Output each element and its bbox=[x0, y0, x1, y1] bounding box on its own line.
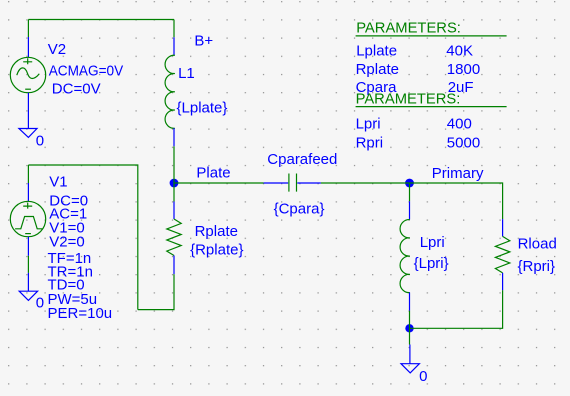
ground pin (V1) bbox=[27, 273, 29, 291]
wire Primary to Rload bbox=[410, 183, 503, 219]
svg-text:V1: V1 bbox=[49, 174, 67, 191]
svg-text:V2=0: V2=0 bbox=[49, 233, 84, 250]
svg-text:{Rplate}: {Rplate} bbox=[190, 241, 243, 258]
svg-text:Rpri: Rpri bbox=[356, 135, 384, 152]
wire V2 top vertical bbox=[27, 20, 29, 38]
inductor Lpri pin bottom bbox=[409, 293, 411, 311]
svg-text:Rplate: Rplate bbox=[356, 61, 399, 78]
inductor Lpri body bbox=[400, 220, 410, 293]
ground symbol (bottom right) bbox=[401, 364, 419, 373]
junction dot bottom bbox=[405, 324, 413, 332]
svg-text:0: 0 bbox=[36, 132, 44, 149]
parameters block 2 underline bbox=[356, 106, 507, 108]
ground symbol (V1) bbox=[19, 291, 37, 300]
junction dot Plate bbox=[170, 179, 179, 188]
capacitor Cparafeed body bbox=[289, 174, 297, 192]
wire top B+ horizontal bbox=[28, 19, 174, 21]
wire V1 loop bbox=[28, 165, 137, 310]
inductor L1 pin top bbox=[173, 37, 175, 55]
voltage source V2 pin bottom bbox=[27, 93, 29, 129]
voltage source V1 pin top bbox=[27, 183, 29, 201]
svg-text:0: 0 bbox=[36, 295, 44, 312]
capacitor Cparafeed pin right bbox=[297, 182, 321, 184]
wire L1 to Plate node bbox=[173, 146, 175, 183]
wire Rload bottom bbox=[410, 290, 503, 328]
voltage source V2 pin top bbox=[27, 37, 29, 57]
wire bottom junction down bbox=[409, 328, 411, 344]
parameters block 1 underline bbox=[356, 35, 507, 37]
svg-text:Plate: Plate bbox=[196, 165, 230, 182]
capacitor Cparafeed pin left bbox=[264, 182, 289, 184]
inductor L1 body bbox=[165, 55, 175, 128]
svg-text:1800: 1800 bbox=[447, 61, 480, 78]
svg-text:ACMAG=0V: ACMAG=0V bbox=[49, 63, 124, 80]
svg-text:B+: B+ bbox=[194, 32, 213, 49]
svg-text:Primary: Primary bbox=[432, 165, 484, 182]
voltage source V1 pin bottom bbox=[27, 237, 29, 256]
svg-text:Cparafeed: Cparafeed bbox=[267, 151, 337, 168]
svg-text:Lpri: Lpri bbox=[420, 234, 445, 251]
svg-text:PARAMETERS:: PARAMETERS: bbox=[356, 20, 461, 37]
ground pin (bottom right) bbox=[409, 345, 411, 364]
wire V1 top vertical bbox=[27, 165, 29, 183]
svg-text:DC=0V: DC=0V bbox=[52, 81, 101, 98]
wire Plate junction vertical bbox=[173, 183, 175, 202]
wire Rplate bottom bbox=[138, 274, 174, 309]
voltage source V1 body bbox=[10, 201, 45, 236]
svg-text:40K: 40K bbox=[446, 42, 473, 59]
svg-text:{Rpri}: {Rpri} bbox=[518, 258, 556, 275]
svg-text:L1: L1 bbox=[178, 65, 195, 82]
wire Lpri to bottom junction bbox=[409, 311, 411, 329]
svg-text:0: 0 bbox=[419, 368, 427, 385]
voltage source V2 body bbox=[10, 57, 45, 92]
resistor Rload pin top bbox=[502, 219, 504, 236]
inductor Lpri pin top bbox=[409, 201, 411, 219]
svg-text:Lpri: Lpri bbox=[356, 116, 381, 133]
svg-text:PARAMETERS:: PARAMETERS: bbox=[356, 90, 461, 107]
svg-text:{Cpara}: {Cpara} bbox=[274, 200, 325, 217]
svg-text:{Lplate}: {Lplate} bbox=[177, 100, 228, 117]
wire V1 to ground bbox=[27, 256, 29, 273]
wire Primary junction down bbox=[409, 183, 411, 201]
resistor Rplate pin bottom bbox=[173, 256, 175, 275]
inductor L1 pin bottom bbox=[173, 128, 175, 146]
wire Plate to capacitor bbox=[174, 182, 264, 184]
svg-text:Rplate: Rplate bbox=[195, 223, 238, 240]
svg-text:PER=10u: PER=10u bbox=[48, 305, 113, 322]
svg-text:Lplate: Lplate bbox=[356, 42, 397, 59]
resistor Rload body bbox=[495, 236, 509, 273]
wire L1 top bbox=[173, 20, 175, 38]
resistor Rplate pin top bbox=[173, 202, 175, 220]
svg-text:400: 400 bbox=[447, 116, 472, 133]
junction dot Primary bbox=[405, 179, 414, 188]
svg-text:{Lpri}: {Lpri} bbox=[414, 255, 449, 272]
svg-text:V2: V2 bbox=[48, 41, 66, 58]
wire capacitor to Primary node bbox=[321, 182, 410, 184]
resistor Rplate body bbox=[167, 219, 181, 255]
resistor Rload pin bottom bbox=[502, 273, 504, 290]
svg-text:Rload: Rload bbox=[518, 235, 557, 252]
svg-text:5000: 5000 bbox=[447, 135, 480, 152]
ground symbol (V2) bbox=[19, 129, 37, 138]
